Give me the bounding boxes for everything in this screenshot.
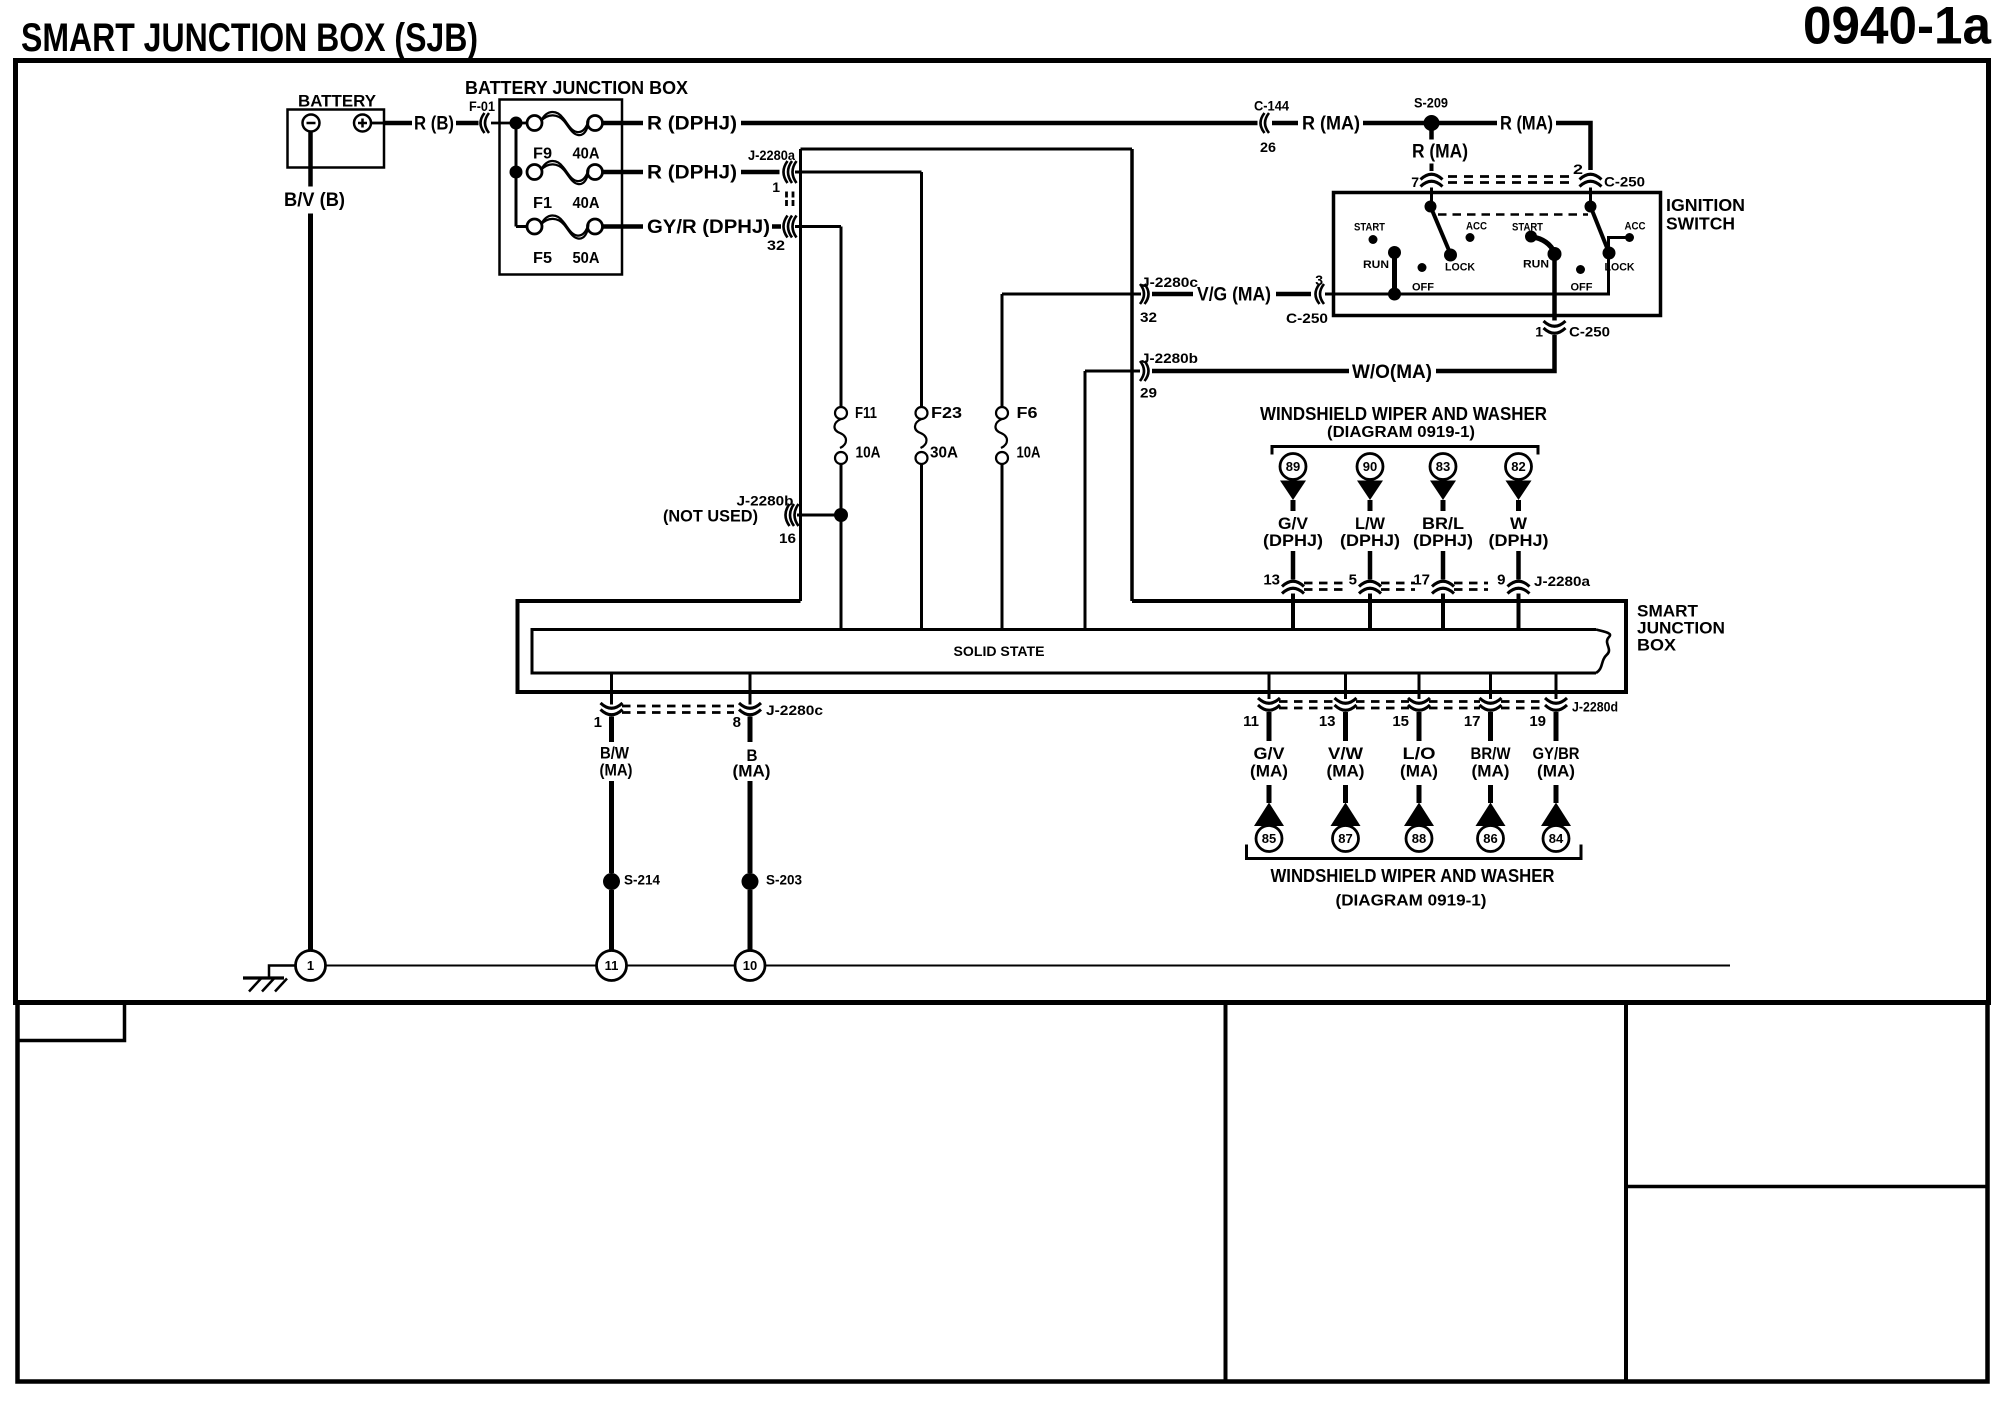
svg-text:89: 89: [1286, 459, 1300, 474]
svg-text:SMART JUNCTION BOX (SJB): SMART JUNCTION BOX (SJB): [21, 16, 478, 60]
svg-text:(MA): (MA): [1400, 762, 1438, 781]
svg-text:17: 17: [1413, 572, 1430, 589]
svg-text:START: START: [1354, 222, 1385, 234]
svg-text:26: 26: [1260, 139, 1276, 155]
svg-text:88: 88: [1412, 831, 1426, 846]
svg-text:G/V: G/V: [1254, 744, 1286, 763]
svg-text:(MA): (MA): [1327, 762, 1365, 781]
svg-text:(DPHJ): (DPHJ): [1489, 531, 1549, 550]
svg-text:(MA): (MA): [1537, 762, 1575, 781]
svg-text:W/O(MA): W/O(MA): [1352, 362, 1432, 383]
svg-text:WINDSHIELD WIPER AND WASHER: WINDSHIELD WIPER AND WASHER: [1271, 866, 1555, 886]
svg-text:GY/R (DPHJ): GY/R (DPHJ): [647, 217, 770, 238]
svg-text:R (DPHJ): R (DPHJ): [647, 163, 737, 184]
svg-text:F1: F1: [533, 195, 552, 212]
svg-text:(NOT USED): (NOT USED): [663, 507, 758, 526]
svg-text:83: 83: [1436, 459, 1450, 474]
svg-text:10A: 10A: [1017, 445, 1041, 462]
svg-text:BOX: BOX: [1637, 636, 1677, 655]
svg-text:R (MA): R (MA): [1412, 142, 1468, 163]
svg-text:(MA): (MA): [1472, 762, 1510, 781]
svg-text:40A: 40A: [573, 195, 600, 212]
svg-text:J-2280c: J-2280c: [766, 702, 823, 718]
svg-text:SWITCH: SWITCH: [1666, 214, 1735, 234]
svg-text:1: 1: [1535, 324, 1543, 340]
svg-text:82: 82: [1511, 459, 1525, 474]
svg-text:C-250: C-250: [1286, 310, 1328, 326]
svg-text:BATTERY: BATTERY: [298, 92, 377, 111]
svg-text:40A: 40A: [573, 146, 600, 163]
svg-text:B/V (B): B/V (B): [284, 190, 345, 211]
svg-text:J-2280b: J-2280b: [1141, 350, 1198, 366]
svg-text:BATTERY JUNCTION BOX: BATTERY JUNCTION BOX: [465, 78, 688, 98]
svg-text:R (MA): R (MA): [1302, 114, 1360, 135]
svg-text:OFF: OFF: [1571, 282, 1593, 294]
svg-text:J-2280a: J-2280a: [1534, 573, 1590, 589]
svg-text:1: 1: [594, 714, 602, 731]
svg-text:7: 7: [1411, 174, 1419, 190]
svg-text:29: 29: [1140, 385, 1157, 401]
svg-text:F23: F23: [931, 405, 962, 422]
svg-text:(MA): (MA): [600, 761, 633, 780]
svg-text:16: 16: [779, 530, 796, 546]
svg-text:32: 32: [1140, 309, 1157, 325]
svg-text:1: 1: [307, 958, 314, 973]
svg-text:(MA): (MA): [733, 762, 771, 781]
svg-text:85: 85: [1262, 831, 1276, 846]
svg-text:R (MA): R (MA): [1500, 114, 1553, 135]
svg-text:J-2280d: J-2280d: [1572, 699, 1618, 715]
svg-text:OFF: OFF: [1412, 282, 1434, 294]
svg-text:J-2280a: J-2280a: [748, 147, 795, 163]
svg-text:0940-1a: 0940-1a: [1803, 0, 1991, 56]
svg-text:(MA): (MA): [1250, 762, 1288, 781]
svg-text:11: 11: [1243, 713, 1259, 730]
svg-text:87: 87: [1338, 831, 1352, 846]
svg-text:F5: F5: [533, 250, 552, 267]
svg-text:F6: F6: [1017, 405, 1038, 422]
svg-text:13: 13: [1319, 713, 1336, 730]
svg-text:8: 8: [733, 714, 741, 731]
svg-text:(DPHJ): (DPHJ): [1413, 531, 1473, 550]
svg-text:2: 2: [1573, 161, 1583, 177]
svg-text:V/G (MA): V/G (MA): [1197, 285, 1271, 306]
svg-text:10A: 10A: [856, 445, 881, 462]
svg-text:S-209: S-209: [1414, 96, 1448, 111]
svg-text:WINDSHIELD WIPER AND WASHER: WINDSHIELD WIPER AND WASHER: [1260, 404, 1547, 424]
svg-text:86: 86: [1483, 831, 1497, 846]
svg-text:ACC: ACC: [1625, 221, 1646, 233]
svg-text:13: 13: [1263, 572, 1280, 589]
svg-text:90: 90: [1363, 459, 1377, 474]
svg-text:(DPHJ): (DPHJ): [1263, 531, 1323, 550]
svg-text:30A: 30A: [930, 445, 958, 462]
svg-text:RUN: RUN: [1523, 259, 1549, 271]
svg-text:15: 15: [1392, 713, 1409, 730]
svg-text:5: 5: [1349, 572, 1357, 589]
svg-text:C-144: C-144: [1254, 98, 1289, 114]
svg-text:V/W: V/W: [1328, 744, 1364, 763]
svg-text:L/O: L/O: [1403, 744, 1436, 763]
svg-text:11: 11: [605, 958, 619, 973]
svg-text:RUN: RUN: [1363, 259, 1389, 271]
svg-text:32: 32: [767, 237, 785, 253]
svg-text:SOLID STATE: SOLID STATE: [954, 643, 1045, 659]
svg-text:GY/BR: GY/BR: [1533, 744, 1580, 763]
svg-text:C-250: C-250: [1604, 174, 1645, 190]
svg-text:R (B): R (B): [414, 114, 454, 135]
svg-text:ACC: ACC: [1466, 221, 1487, 233]
svg-text:(DIAGRAM 0919-1): (DIAGRAM 0919-1): [1327, 424, 1475, 441]
svg-text:F11: F11: [855, 405, 877, 422]
svg-text:F-01: F-01: [469, 99, 495, 114]
svg-text:(DIAGRAM 0919-1): (DIAGRAM 0919-1): [1336, 893, 1487, 910]
svg-text:84: 84: [1549, 831, 1564, 846]
svg-text:LOCK: LOCK: [1445, 262, 1475, 274]
svg-text:S-203: S-203: [766, 872, 802, 888]
svg-text:BR/W: BR/W: [1471, 744, 1512, 763]
svg-text:(DPHJ): (DPHJ): [1340, 531, 1400, 550]
svg-text:9: 9: [1497, 572, 1505, 589]
svg-text:10: 10: [743, 958, 757, 973]
svg-text:F9: F9: [533, 146, 552, 163]
svg-text:S-214: S-214: [624, 872, 660, 888]
svg-text:IGNITION: IGNITION: [1666, 195, 1745, 215]
svg-text:50A: 50A: [573, 250, 600, 267]
svg-text:J-2280c: J-2280c: [1141, 274, 1198, 290]
svg-text:17: 17: [1464, 713, 1481, 730]
svg-text:R (DPHJ): R (DPHJ): [647, 114, 737, 135]
svg-text:1: 1: [772, 179, 780, 195]
svg-text:19: 19: [1529, 713, 1546, 730]
svg-text:C-250: C-250: [1569, 324, 1610, 340]
